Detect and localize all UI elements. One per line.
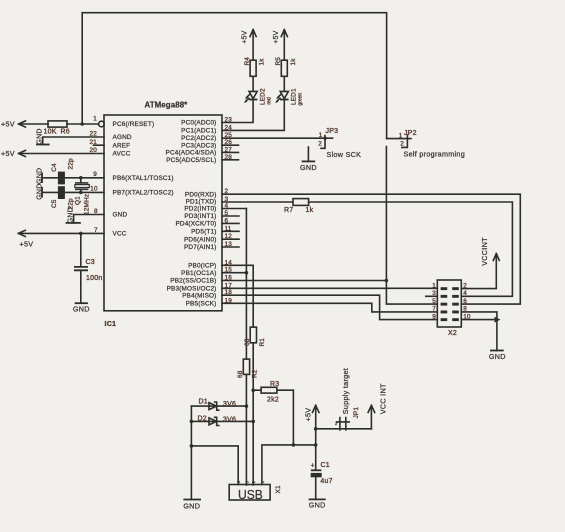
node crystal bottom — [79, 191, 83, 195]
svg-text:X1: X1 — [275, 485, 282, 493]
svg-text:4u7: 4u7 — [320, 478, 332, 485]
svg-text:R3: R3 — [270, 381, 279, 388]
wire pin4 INT0 to D+ — [222, 208, 246, 210]
svg-text:PD2(INT0): PD2(INT0) — [184, 206, 216, 213]
wire JP2 down to X2 pin5 — [386, 147, 437, 305]
svg-text:GND: GND — [67, 207, 74, 223]
svg-text:10K: 10K — [44, 129, 57, 136]
svg-text:R6: R6 — [61, 129, 70, 136]
svg-text:Q1: Q1 — [75, 196, 82, 205]
svg-text:VCCINT: VCCINT — [480, 237, 489, 266]
pin28 stub — [222, 159, 239, 161]
svg-text:R7: R7 — [284, 207, 293, 214]
capacitor C3 — [80, 233, 82, 266]
IC1 right pin numbers — [225, 117, 233, 305]
+5V arrow R4 — [250, 30, 256, 61]
X2 pin3 stub — [426, 295, 438, 297]
svg-text:2: 2 — [318, 140, 322, 147]
wire D+ vertical — [245, 209, 247, 360]
wire JP1 rail — [316, 428, 372, 430]
svg-text:6: 6 — [463, 298, 467, 305]
ground X2 — [490, 350, 504, 352]
svg-text:X2: X2 — [448, 330, 457, 337]
svg-text:PC6(/RESET): PC6(/RESET) — [113, 121, 155, 128]
pin26 stub — [222, 144, 239, 146]
svg-text:8: 8 — [94, 208, 98, 215]
wire X2 pin8 pin10 to ground — [461, 312, 497, 351]
svg-text:12MHz: 12MHz — [84, 194, 91, 215]
svg-text:R2: R2 — [252, 369, 259, 378]
svg-text:R5: R5 — [275, 57, 282, 66]
connector X2 — [437, 280, 461, 327]
diode D1 zener — [191, 405, 246, 407]
svg-text:GND: GND — [183, 501, 200, 510]
svg-text:1k: 1k — [306, 207, 314, 214]
svg-text:3V6: 3V6 — [223, 401, 236, 408]
svg-text:100n: 100n — [86, 275, 103, 282]
node VCC/C3 — [79, 232, 83, 236]
svg-text:GND: GND — [36, 183, 43, 199]
svg-text:VCC INT: VCC INT — [379, 383, 388, 414]
svg-text:4: 4 — [463, 290, 467, 297]
svg-text:green: green — [298, 92, 304, 105]
wire top loop reset to JP2 — [82, 13, 386, 139]
wire pin17 MOSI to X2 pin1 — [222, 287, 437, 289]
wire GND to USB pin4 — [191, 446, 238, 485]
pin6 stub — [222, 222, 239, 224]
resistor R5 — [281, 60, 287, 76]
svg-text:1k: 1k — [290, 58, 297, 66]
svg-text:10: 10 — [90, 186, 98, 193]
svg-text:2: 2 — [335, 422, 337, 426]
capacitor C5 — [58, 186, 65, 199]
wire pin3 TXD to R7 — [222, 201, 293, 203]
svg-text:1: 1 — [432, 282, 436, 289]
svg-text:1: 1 — [399, 133, 403, 140]
wire pin23 to LED2 — [222, 100, 253, 123]
svg-text:5: 5 — [432, 298, 436, 305]
svg-text:1: 1 — [93, 116, 97, 123]
svg-text:+5V: +5V — [273, 30, 280, 43]
wire R7 to X2 pin4 — [309, 202, 513, 296]
LED2 red — [249, 91, 257, 98]
svg-text:+5V: +5V — [1, 120, 15, 129]
svg-text:USB: USB — [238, 487, 263, 502]
crystal Q1 12MHz — [76, 178, 88, 193]
svg-text:PB4(MISO): PB4(MISO) — [182, 292, 216, 299]
svg-text:GND: GND — [300, 163, 317, 172]
svg-text:C3: C3 — [86, 259, 95, 266]
wire diode ground rail — [190, 406, 192, 499]
wire pin25 to JP3 — [222, 137, 333, 139]
svg-text:1k: 1k — [259, 58, 266, 66]
pin27 stub — [222, 151, 239, 153]
svg-text:GND: GND — [36, 168, 43, 184]
resistor R7 — [293, 199, 309, 206]
wire pin10 XTAL2 — [43, 191, 105, 193]
resistor R6 — [48, 121, 67, 127]
LED1 green — [280, 91, 288, 98]
wire pin7 VCC +5V — [18, 230, 104, 236]
wire pin18 MISO to X2 pin9 — [222, 295, 437, 319]
svg-text:2k2: 2k2 — [267, 396, 279, 403]
wire AGND pin22 to ground — [43, 137, 104, 145]
resistor R3 — [251, 388, 255, 392]
svg-text:21: 21 — [90, 139, 98, 146]
svg-text:LED2: LED2 — [260, 88, 267, 105]
pin11 stub — [222, 230, 239, 232]
svg-text:red: red — [267, 97, 273, 104]
jumper JP1 supply target — [337, 418, 350, 430]
svg-text:JP3: JP3 — [326, 128, 339, 135]
svg-text:R1: R1 — [259, 338, 266, 347]
svg-text:+5V: +5V — [1, 149, 15, 158]
svg-text:22p: 22p — [68, 158, 75, 169]
svg-text:2: 2 — [400, 141, 404, 148]
svg-text:GND: GND — [489, 352, 506, 361]
svg-text:PB1(OC1A): PB1(OC1A) — [181, 270, 216, 277]
svg-text:PD7(AIN1): PD7(AIN1) — [184, 244, 217, 251]
IC1 left pin labels — [113, 121, 174, 237]
wire pin2 RXD to X2 pin6 — [222, 194, 520, 304]
svg-text:+: + — [311, 462, 315, 469]
pin 21 stub — [94, 144, 104, 146]
svg-text:PD5(T1): PD5(T1) — [191, 229, 216, 236]
svg-text:+5V: +5V — [242, 30, 249, 43]
svg-text:PD1(TXD): PD1(TXD) — [186, 199, 217, 206]
svg-text:IC1: IC1 — [105, 321, 117, 328]
pin12 stub — [222, 238, 239, 240]
ground C1 — [309, 498, 326, 500]
svg-text:20: 20 — [90, 147, 98, 154]
svg-text:JP2: JP2 — [404, 130, 417, 137]
svg-text:PD3(INT1): PD3(INT1) — [184, 213, 216, 220]
diode D2 zener — [191, 420, 253, 422]
VCCINT arrow bottom — [368, 405, 375, 429]
svg-text:C1: C1 — [321, 462, 330, 469]
pin5 stub — [222, 215, 239, 217]
svg-text:PC3(ADC3): PC3(ADC3) — [181, 142, 216, 149]
svg-text:GND: GND — [113, 212, 128, 219]
jumper JP3 — [321, 136, 325, 149]
jumper JP2 — [387, 138, 411, 140]
capacitor C4 — [58, 172, 65, 185]
wire X2 pin2 to VCCINT arrow — [461, 254, 499, 289]
svg-text:PC4(ADC4/SDA): PC4(ADC4/SDA) — [166, 150, 217, 157]
+5V arrow AVCC pin20 — [19, 150, 105, 156]
IC1 right pin labels — [166, 120, 217, 308]
svg-text:PB5(SCK): PB5(SCK) — [186, 301, 217, 308]
svg-text:GND: GND — [73, 305, 90, 314]
svg-text:GND: GND — [309, 501, 326, 510]
svg-text:C4: C4 — [51, 163, 58, 172]
resistor R4 — [250, 60, 256, 76]
svg-text:PD6(AIN0): PD6(AIN0) — [184, 236, 217, 243]
ground C3 — [75, 302, 88, 304]
+5V arrow R5 — [281, 30, 287, 61]
ground pin8 — [66, 222, 81, 224]
+5V arrow bottom — [312, 405, 319, 445]
wire pin14 to D- vertical — [222, 265, 253, 327]
pin13 stub — [222, 246, 239, 248]
svg-text:+5V: +5V — [303, 408, 312, 422]
svg-text:ATMega88*: ATMega88* — [145, 100, 189, 109]
ground C5 — [41, 187, 43, 198]
svg-text:Slow SCK: Slow SCK — [327, 150, 362, 159]
svg-text:AGND: AGND — [113, 134, 132, 141]
connector X1 USB — [229, 485, 270, 501]
wire pin9 XTAL1 — [43, 177, 105, 179]
svg-text:AVCC: AVCC — [113, 151, 131, 158]
ground JP3 — [307, 147, 309, 161]
svg-text:9: 9 — [93, 171, 97, 178]
svg-text:7: 7 — [94, 227, 98, 234]
svg-text:PD0(RXD): PD0(RXD) — [185, 191, 217, 198]
ground left — [183, 499, 201, 501]
svg-text:3V6: 3V6 — [223, 417, 236, 424]
ground AGND — [36, 144, 50, 146]
svg-text:PC1(ADC1): PC1(ADC1) — [181, 128, 216, 135]
svg-text:22: 22 — [90, 131, 98, 138]
svg-text:PB6(XTAL1/TOSC1): PB6(XTAL1/TOSC1) — [113, 175, 174, 182]
svg-text:PB2(SS/OC1B): PB2(SS/OC1B) — [170, 278, 216, 285]
wire pin8 GND — [74, 215, 104, 223]
svg-text:PD4(XCK/T0): PD4(XCK/T0) — [175, 221, 216, 228]
resistor R2 — [243, 359, 249, 374]
svg-text:68: 68 — [244, 338, 251, 346]
svg-text:PB0(ICP): PB0(ICP) — [188, 263, 216, 270]
svg-text:D2: D2 — [198, 416, 207, 423]
svg-text:Self programming: Self programming — [404, 149, 466, 158]
svg-text:7: 7 — [432, 306, 436, 313]
resistor R1 — [250, 327, 256, 343]
svg-text:C5: C5 — [51, 199, 58, 208]
svg-text:Supply target: Supply target — [341, 368, 350, 414]
svg-text:PC2(ADC2): PC2(ADC2) — [181, 135, 216, 142]
svg-text:9: 9 — [432, 313, 436, 320]
svg-text:PC0(ADC0): PC0(ADC0) — [181, 120, 216, 127]
wire pin16 to JP2 net — [222, 280, 386, 282]
pin 1 bubble — [99, 121, 105, 127]
svg-text:1: 1 — [319, 132, 323, 139]
wire pin15 joins D+ — [222, 272, 246, 274]
svg-text:+5V: +5V — [20, 239, 34, 248]
wire USB pin1 VBUS to +5V node — [262, 445, 316, 485]
node crystal top — [79, 176, 83, 180]
+5V arrow pin1 — [19, 121, 49, 127]
svg-text:PB7(XTAL2/TOSC2): PB7(XTAL2/TOSC2) — [113, 190, 174, 197]
svg-text:R4: R4 — [244, 57, 251, 66]
wire pin24 to LED1 — [222, 100, 284, 130]
svg-text:PC5(ADC5/SCL): PC5(ADC5/SCL) — [166, 157, 216, 164]
svg-text:GND: GND — [37, 128, 44, 144]
ground C4 — [41, 173, 43, 184]
svg-text:68: 68 — [237, 370, 244, 378]
svg-text:D1: D1 — [199, 399, 208, 406]
wire pin19 SCK to X2 pin7 — [222, 303, 437, 312]
op IC1 ATMega88 box — [104, 115, 222, 311]
svg-text:VCC: VCC — [113, 231, 127, 238]
capacitor C1 — [315, 445, 317, 470]
svg-text:AREF: AREF — [113, 142, 131, 149]
svg-text:JP1: JP1 — [353, 407, 360, 419]
node reset junction — [80, 122, 84, 126]
